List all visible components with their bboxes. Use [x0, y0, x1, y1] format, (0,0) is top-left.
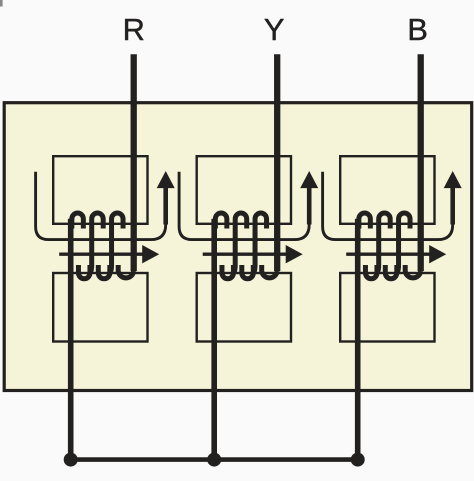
flux path line column 3 — [323, 172, 453, 240]
winding coil L3 column 3 — [359, 213, 421, 279]
flux path line column 1 — [36, 172, 166, 240]
phase conductor Y — [274, 54, 280, 271]
corner artifact mark — [0, 0, 3, 7]
junction node 1 — [64, 453, 78, 467]
phase conductor R — [131, 54, 137, 271]
flux up-arrow head column 3 — [444, 171, 462, 188]
coil exit conductor to neutral column 3 — [355, 219, 361, 460]
svg-text:Y: Y — [264, 12, 285, 47]
flux up-arrow shaft column 3 — [450, 187, 455, 225]
neutral bus wire — [71, 457, 358, 462]
current right-arrow head column 3 — [429, 245, 446, 263]
flux up-arrow head column 1 — [157, 171, 175, 188]
core limb bottom section column 1 — [53, 273, 147, 342]
svg-text:B: B — [407, 12, 428, 47]
current right-arrow head column 1 — [142, 245, 159, 263]
core limb top section column 2 — [197, 156, 291, 224]
current right-arrow head column 2 — [286, 245, 303, 263]
core limb bottom section column 2 — [197, 273, 291, 342]
current right-arrow shaft column 2 — [203, 253, 288, 256]
current right-arrow shaft column 3 — [346, 253, 431, 256]
transformer core box — [4, 103, 472, 391]
junction node 2 — [207, 453, 221, 467]
coil exit conductor to neutral column 2 — [211, 219, 217, 460]
core limb top section column 1 — [53, 156, 147, 224]
flux path line column 2 — [179, 172, 309, 240]
winding coil L2 column 2 — [215, 213, 277, 279]
core limb bottom section column 3 — [340, 273, 434, 342]
junction node 3 — [351, 453, 365, 467]
current right-arrow shaft column 1 — [59, 253, 144, 256]
flux up-arrow shaft column 1 — [163, 187, 168, 225]
coil exit conductor to neutral column 1 — [68, 219, 74, 460]
flux up-arrow shaft column 2 — [307, 187, 312, 225]
winding coil L1 column 1 — [72, 213, 134, 279]
phase conductor B — [418, 54, 424, 271]
svg-text:R: R — [123, 12, 145, 47]
core limb top section column 3 — [340, 156, 434, 224]
flux up-arrow head column 2 — [300, 171, 318, 188]
